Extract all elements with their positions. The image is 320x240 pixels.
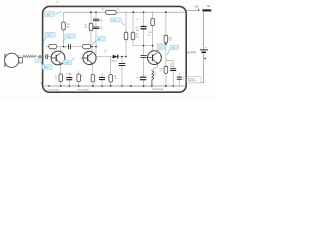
capacitor C2a coupling box bbox=[49, 44, 57, 48]
wire R8 branch bbox=[133, 12, 153, 45]
wire TR3 emitter to coil bbox=[152, 64, 158, 71]
svg-text:10n: 10n bbox=[135, 19, 138, 21]
switch S1 fixed contact bbox=[198, 9, 200, 11]
svg-text:MIC: MIC bbox=[44, 67, 48, 69]
svg-text:10n: 10n bbox=[100, 29, 103, 31]
svg-text:C7: C7 bbox=[136, 77, 138, 79]
wire R2 to ground bbox=[60, 82, 62, 86]
svg-text:BA102: BA102 bbox=[111, 60, 117, 63]
callout label box B bbox=[44, 32, 56, 41]
wire switch to battery bbox=[203, 11, 205, 49]
resistor R3 bbox=[77, 74, 81, 82]
resistor R4 (decoupling) bbox=[89, 23, 93, 31]
svg-text:TR3 BC548: TR3 BC548 bbox=[152, 89, 164, 91]
svg-text:100: 100 bbox=[169, 40, 172, 42]
resistor R9 in supply rail bbox=[106, 10, 117, 14]
wire R11 R12 chain bbox=[165, 12, 167, 86]
junction dot mid line bbox=[143, 45, 145, 47]
battery B1 negative plate bbox=[201, 52, 206, 53]
wire signal line stage1 bbox=[46, 46, 96, 48]
switch S1 lever bar bbox=[202, 9, 211, 11]
stray mark left of frame bottom bbox=[40, 82, 43, 84]
callout label box C bbox=[63, 34, 75, 43]
wire C4b stubs bbox=[101, 73, 103, 86]
capacitor C9 plates bbox=[177, 77, 182, 79]
svg-text:9V PP3: 9V PP3 bbox=[187, 52, 196, 55]
wire C8 tap bbox=[166, 61, 173, 86]
wire C3 stubs bbox=[68, 73, 70, 86]
resistor R2 bbox=[59, 74, 63, 82]
svg-text:TR1 BC548: TR1 BC548 bbox=[47, 89, 59, 91]
wire R5 to ground bbox=[92, 82, 94, 86]
callout label box F bbox=[157, 45, 165, 53]
svg-text:47: 47 bbox=[160, 71, 162, 73]
wire diode line bbox=[96, 56, 126, 58]
capacitor C1 input electrolytic plates bbox=[46, 54, 48, 59]
svg-text:1k: 1k bbox=[148, 34, 150, 36]
wire input to TR1 base bbox=[41, 56, 51, 58]
stray tick mark above frame bbox=[56, 1, 59, 3]
wire TR2 base stub bbox=[80, 57, 84, 59]
junction dot diode line bbox=[121, 56, 123, 58]
wire TR1 collector bbox=[60, 47, 62, 53]
circuit board outline frame bbox=[43, 6, 187, 92]
wire TR3 base stub bbox=[147, 57, 149, 59]
wire R6 stubs bbox=[110, 57, 112, 86]
svg-text:47k: 47k bbox=[84, 27, 87, 29]
junction dots on signal line bbox=[63, 46, 65, 48]
+9V supply rail wire bbox=[64, 11, 187, 13]
callout label box E bbox=[110, 18, 124, 26]
resistor R10 bbox=[151, 18, 155, 25]
wire TR3 collector to tank bbox=[158, 44, 166, 51]
wire lead to connector bbox=[37, 55, 43, 57]
wire R4 stubs bbox=[90, 12, 92, 46]
battery B1 positive plate bbox=[200, 49, 208, 51]
wire decoupling branch bbox=[95, 12, 97, 56]
svg-text:1k: 1k bbox=[55, 78, 57, 80]
capacitor C3 electrolytic plates bbox=[66, 78, 72, 80]
note box aerial bbox=[187, 77, 201, 83]
transistor TR3 bbox=[148, 51, 162, 65]
capacitor C7b electrolytic plates bbox=[140, 77, 146, 80]
screened lead coiled wire bbox=[23, 55, 37, 57]
junction dots on ground rail bbox=[48, 85, 50, 87]
callout label box H bbox=[63, 58, 75, 65]
capacitor C5b plates bbox=[119, 64, 126, 66]
wire R7 branch bbox=[125, 12, 127, 56]
switch S1 wire from frame bbox=[186, 9, 198, 11]
callout label box D bbox=[92, 36, 106, 45]
input connector node bbox=[39, 56, 41, 58]
svg-text:1n: 1n bbox=[182, 79, 184, 81]
callout label box J bbox=[34, 60, 41, 63]
wire C9 stubs bbox=[178, 73, 180, 86]
coil L1 bbox=[152, 71, 154, 86]
svg-text:10k: 10k bbox=[114, 78, 117, 80]
ground rail wire bbox=[45, 85, 187, 87]
capacitor C6 electrolytic plates bbox=[141, 27, 147, 29]
svg-text:−: − bbox=[205, 46, 207, 50]
junction dots on supply rail bbox=[90, 11, 92, 13]
svg-text:S1: S1 bbox=[207, 5, 211, 8]
callout label box G bbox=[167, 45, 179, 55]
resistor R8 bbox=[131, 32, 135, 40]
wire R10 branch to TR3 bbox=[152, 12, 154, 51]
svg-text:10n: 10n bbox=[100, 21, 103, 23]
svg-text:22k: 22k bbox=[136, 37, 139, 39]
svg-text:C3 10µ: C3 10µ bbox=[66, 74, 72, 76]
callout label box I bbox=[38, 58, 52, 69]
wire C6 branch bbox=[143, 12, 145, 86]
wire TR1 emitter bbox=[60, 64, 62, 74]
svg-text:1n: 1n bbox=[104, 52, 106, 54]
wire C5b branch below diode bbox=[121, 57, 123, 86]
svg-text:+: + bbox=[175, 77, 176, 79]
svg-text:ON: ON bbox=[195, 6, 199, 9]
transistor TR1 bbox=[51, 51, 65, 65]
transistor TR2 bbox=[83, 51, 96, 64]
wire R1 branch from rail bbox=[63, 12, 65, 46]
resistor R7 bbox=[124, 32, 128, 40]
diode D1 bbox=[113, 55, 118, 59]
capacitor C4 plates bbox=[93, 19, 99, 21]
wire R3 stubs bbox=[78, 71, 80, 86]
junction dot tank node bbox=[165, 43, 167, 45]
capacitor C8 plates bbox=[170, 67, 176, 69]
svg-text:1k: 1k bbox=[117, 9, 119, 11]
microphone terminal block bbox=[19, 57, 22, 63]
resistor R12 bbox=[164, 66, 168, 73]
capacitor C4b electrolytic plates bbox=[99, 78, 105, 80]
svg-text:SEE TEXT: SEE TEXT bbox=[188, 81, 198, 83]
microphone MIC1 body bbox=[4, 54, 6, 67]
wire battery to ground note bbox=[201, 53, 203, 83]
resistor R5 bbox=[91, 75, 95, 82]
wire TR2 collector bbox=[91, 47, 93, 53]
capacitor C2 electrolytic plates bbox=[69, 44, 71, 49]
resistor R14 coupling box bbox=[83, 44, 91, 48]
wire TR2 emitter to R5 bbox=[91, 64, 93, 75]
svg-text:TR2 BC548: TR2 BC548 bbox=[77, 89, 89, 91]
svg-text:+: + bbox=[204, 56, 207, 61]
svg-text:R3: R3 bbox=[81, 76, 83, 78]
capacitor C6b plates at TR3 base bbox=[141, 55, 147, 57]
capacitor C5 plates bbox=[93, 27, 99, 29]
resistor R11 bbox=[164, 35, 168, 43]
resistor R6 bbox=[109, 75, 113, 82]
callout label box A bbox=[45, 12, 62, 17]
resistor R1 (TR1 collector load) bbox=[62, 22, 66, 30]
